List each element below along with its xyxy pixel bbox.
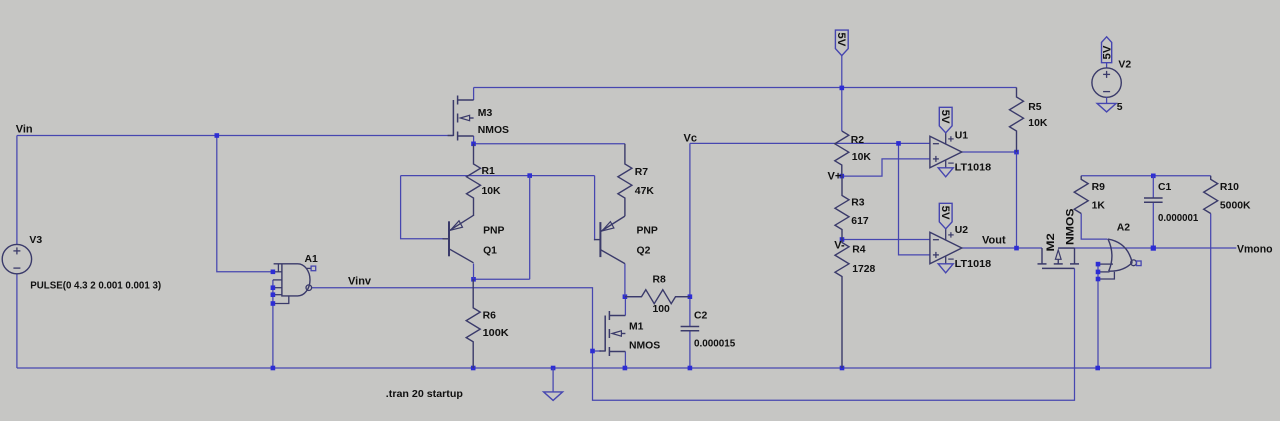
svg-text:100: 100 [653,304,671,315]
svg-text:5000K: 5000K [1220,201,1251,212]
flag 5V top [835,30,848,55]
logic gate A1 [274,264,310,296]
svg-text:Vin: Vin [16,124,33,136]
wire R9-C1-R10 rail [1081,175,1211,177]
svg-text:10K: 10K [482,186,502,197]
node C1 bottom junction [1151,246,1156,251]
node Q1 collector junction [471,277,476,282]
svg-text:Q1: Q1 [483,246,497,257]
resistor R9 [1074,176,1088,214]
op-amp U1 LT1018 [930,136,962,168]
voltage source V2 [1092,68,1121,97]
resistor R3 [835,176,849,239]
wire Q1 collector drop [473,264,475,280]
op-amp U2 LT1018 [930,232,962,263]
flag 5V V2 [1102,37,1112,63]
wire R8 left lead [625,296,642,298]
capacitor C2 [681,326,700,328]
svg-text:R5: R5 [1028,102,1042,113]
wire V+ to U1 plus [842,159,930,176]
svg-text:5V: 5V [835,32,847,47]
node gnd rail junction [551,366,556,371]
svg-text:1728: 1728 [852,264,875,275]
svg-text:Vmono: Vmono [1237,244,1273,256]
wire M3 drain [473,88,475,101]
svg-text:5V: 5V [939,110,951,125]
svg-text:PULSE(0 4.3 2 0.001 0.001 3): PULSE(0 4.3 2 0.001 0.001 3) [30,281,161,292]
node U1 output junction [1014,150,1019,155]
resistor R7 [618,144,632,216]
wire M1 source [624,352,626,369]
svg-text:PNP: PNP [637,226,658,237]
node R8 right junction [688,294,693,299]
svg-text:R7: R7 [635,167,649,178]
node loop junction [527,173,532,178]
wire Vinv run [312,268,1075,400]
node V+ junction [840,174,845,179]
node R6 top rail junction [471,366,476,371]
wire R10 bottom [1210,214,1212,369]
svg-text:NMOS: NMOS [478,125,509,136]
node M1 drain junction [623,294,628,299]
wire R8 right lead [676,296,690,298]
svg-text:617: 617 [851,216,869,227]
svg-text:M3: M3 [478,108,493,119]
resistor R1 [467,144,481,216]
wire U2 plus tap [899,143,930,255]
svg-text:NMOS: NMOS [1065,209,1077,246]
wire U1 output [962,151,1017,153]
ground V2 [1097,103,1116,112]
wire M1 drain [624,297,626,316]
svg-text:C2: C2 [694,311,708,322]
wire Vin rail [17,135,454,137]
svg-text:R3: R3 [851,198,865,209]
svg-text:Vc: Vc [684,133,697,145]
svg-text:LT1018: LT1018 [955,163,992,174]
pin A2 input squares [1096,262,1101,267]
wire Q2 collector drop [624,264,626,297]
wire R1-Q1 loop top [401,175,595,177]
wire Vout run [962,247,1042,249]
resistor R2 [835,131,849,176]
svg-text:U1: U1 [955,131,969,142]
svg-text:U2: U2 [955,225,969,236]
transistor M1 NMOS [604,316,606,352]
svg-text:Q2: Q2 [637,246,651,257]
node V- junction [840,237,845,242]
transistor M2 NMOS rotated [1042,267,1075,269]
svg-text:5V: 5V [1101,45,1113,60]
node A1 tie rail junction [271,366,276,371]
svg-text:R6: R6 [483,311,497,322]
resistor R5 [1010,88,1024,153]
pin A1 complement out (open) [311,266,316,271]
svg-text:M1: M1 [629,322,644,333]
wire A1 input drop [217,136,271,272]
wire loop to collector [474,176,530,280]
pin A2 output (open) [1137,261,1142,266]
svg-text:R10: R10 [1220,182,1239,193]
svg-text:.tran 20 startup: .tran 20 startup [386,389,463,400]
node 5V rail junction [840,86,845,91]
node M1 gate junction [590,349,595,354]
svg-text:C1: C1 [1158,182,1172,193]
transistor Q1 PNP [448,221,450,256]
transistor Q2 PNP [599,222,601,257]
node R4 rail junction [840,366,845,371]
svg-text:NMOS: NMOS [629,341,660,352]
wire V- to U2 minus [842,239,930,241]
wire V3 bottom [16,274,18,368]
resistor R10 [1204,176,1218,214]
svg-text:R1: R1 [482,166,496,177]
capacitor C1 [1144,197,1163,199]
node M3 source junction [471,142,476,147]
wire V2 bottom [1106,97,1108,103]
wire R9 bottom to A2 [1081,214,1107,240]
wire M1 gate tap [593,350,602,352]
wire Vc vertical [689,143,691,326]
svg-text:0.000015: 0.000015 [694,339,736,350]
svg-text:10K: 10K [1028,118,1048,129]
svg-text:5: 5 [1117,102,1123,113]
svg-text:R8: R8 [653,275,667,286]
svg-text:V2: V2 [1118,60,1131,71]
resistor R6 [466,279,480,368]
node Vin junction [215,133,220,138]
svg-text:R9: R9 [1092,182,1106,193]
resistor R4 [835,240,849,369]
wire ground rail [17,367,1211,369]
svg-text:1K: 1K [1092,201,1106,212]
node A2 tie junction [1095,366,1100,371]
wire gnd flag stem [552,368,554,392]
ground flag [544,392,563,401]
wire C1 bottom lead [1152,202,1154,248]
node Vout junction [1014,246,1019,251]
svg-text:PNP: PNP [483,226,504,237]
wire V2 top [1106,63,1108,68]
logic gate A2 [1108,239,1112,271]
svg-text:Vinv: Vinv [348,276,372,288]
node Vc junction [896,141,901,146]
wire 5V flag drop [841,56,843,131]
resistor R8 [625,290,690,304]
node M1 source junction [623,366,628,371]
wire C2 bottom [689,331,691,368]
svg-text:10K: 10K [852,152,872,163]
svg-text:A2: A2 [1117,223,1131,234]
svg-text:5V: 5V [939,206,951,221]
wire top 5V rail [474,87,1017,89]
transistor M3 NMOS [452,100,454,136]
wire C1 top lead [1152,176,1154,198]
wire A1 unused-input tie [272,280,274,368]
svg-text:V+: V+ [828,171,842,183]
pin A1 input squares [271,270,276,275]
node C2 rail junction [688,366,693,371]
svg-text:M2: M2 [1045,233,1057,251]
wire U1 out to Vout [1016,152,1018,248]
svg-text:LT1018: LT1018 [955,259,992,270]
svg-text:47K: 47K [635,186,655,197]
voltage source V3 [2,244,31,273]
wire Q2 base drop [594,176,596,240]
wire A2 unused-input tie [1097,264,1099,368]
svg-text:100K: 100K [483,328,510,339]
wire Q1 base loop [401,176,444,239]
svg-text:Vout: Vout [982,235,1006,247]
svg-text:V3: V3 [29,235,42,246]
svg-text:R2: R2 [851,135,865,146]
wire M2 source to Vmono [1058,247,1236,249]
wire Vc to U1 [690,142,930,144]
svg-text:R4: R4 [852,245,866,256]
wire M3 source to R7 [474,136,625,144]
svg-text:0.000001: 0.000001 [1158,213,1199,224]
svg-text:A1: A1 [305,254,319,265]
node C1 top junction [1151,174,1156,179]
wire V3 top [16,136,18,245]
